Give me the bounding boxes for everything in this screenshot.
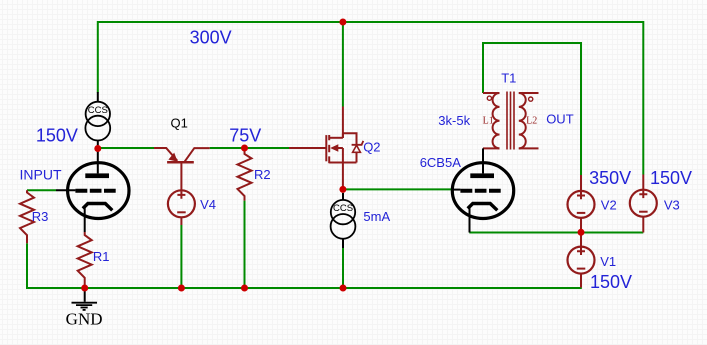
svg-text:3k-5k: 3k-5k: [438, 113, 470, 128]
svg-text:150V: 150V: [650, 168, 692, 188]
svg-text:L2: L2: [526, 116, 537, 127]
svg-text:350V: 350V: [589, 168, 631, 188]
svg-text:R3: R3: [32, 209, 49, 224]
svg-text:R1: R1: [93, 249, 110, 264]
svg-text:75V: 75V: [229, 125, 261, 145]
svg-text:R2: R2: [254, 167, 271, 182]
svg-text:V1: V1: [600, 254, 616, 269]
svg-text:V4: V4: [200, 197, 216, 212]
svg-text:5mA: 5mA: [363, 209, 390, 224]
svg-text:V2: V2: [601, 197, 617, 212]
svg-text:V3: V3: [664, 197, 680, 212]
svg-text:300V: 300V: [190, 27, 232, 47]
svg-text:150V: 150V: [590, 272, 632, 292]
svg-text:Q1: Q1: [171, 116, 188, 131]
svg-text:150V: 150V: [36, 125, 78, 145]
svg-text:Q2: Q2: [363, 140, 380, 155]
svg-text:CCS: CCS: [333, 203, 353, 214]
svg-text:GND: GND: [66, 309, 103, 328]
svg-text:INPUT: INPUT: [20, 167, 62, 183]
svg-text:OUT: OUT: [546, 112, 574, 127]
svg-text:L1: L1: [483, 116, 494, 127]
svg-text:CCS: CCS: [88, 105, 108, 116]
svg-text:T1: T1: [501, 70, 516, 85]
svg-text:6CB5A: 6CB5A: [420, 155, 462, 170]
